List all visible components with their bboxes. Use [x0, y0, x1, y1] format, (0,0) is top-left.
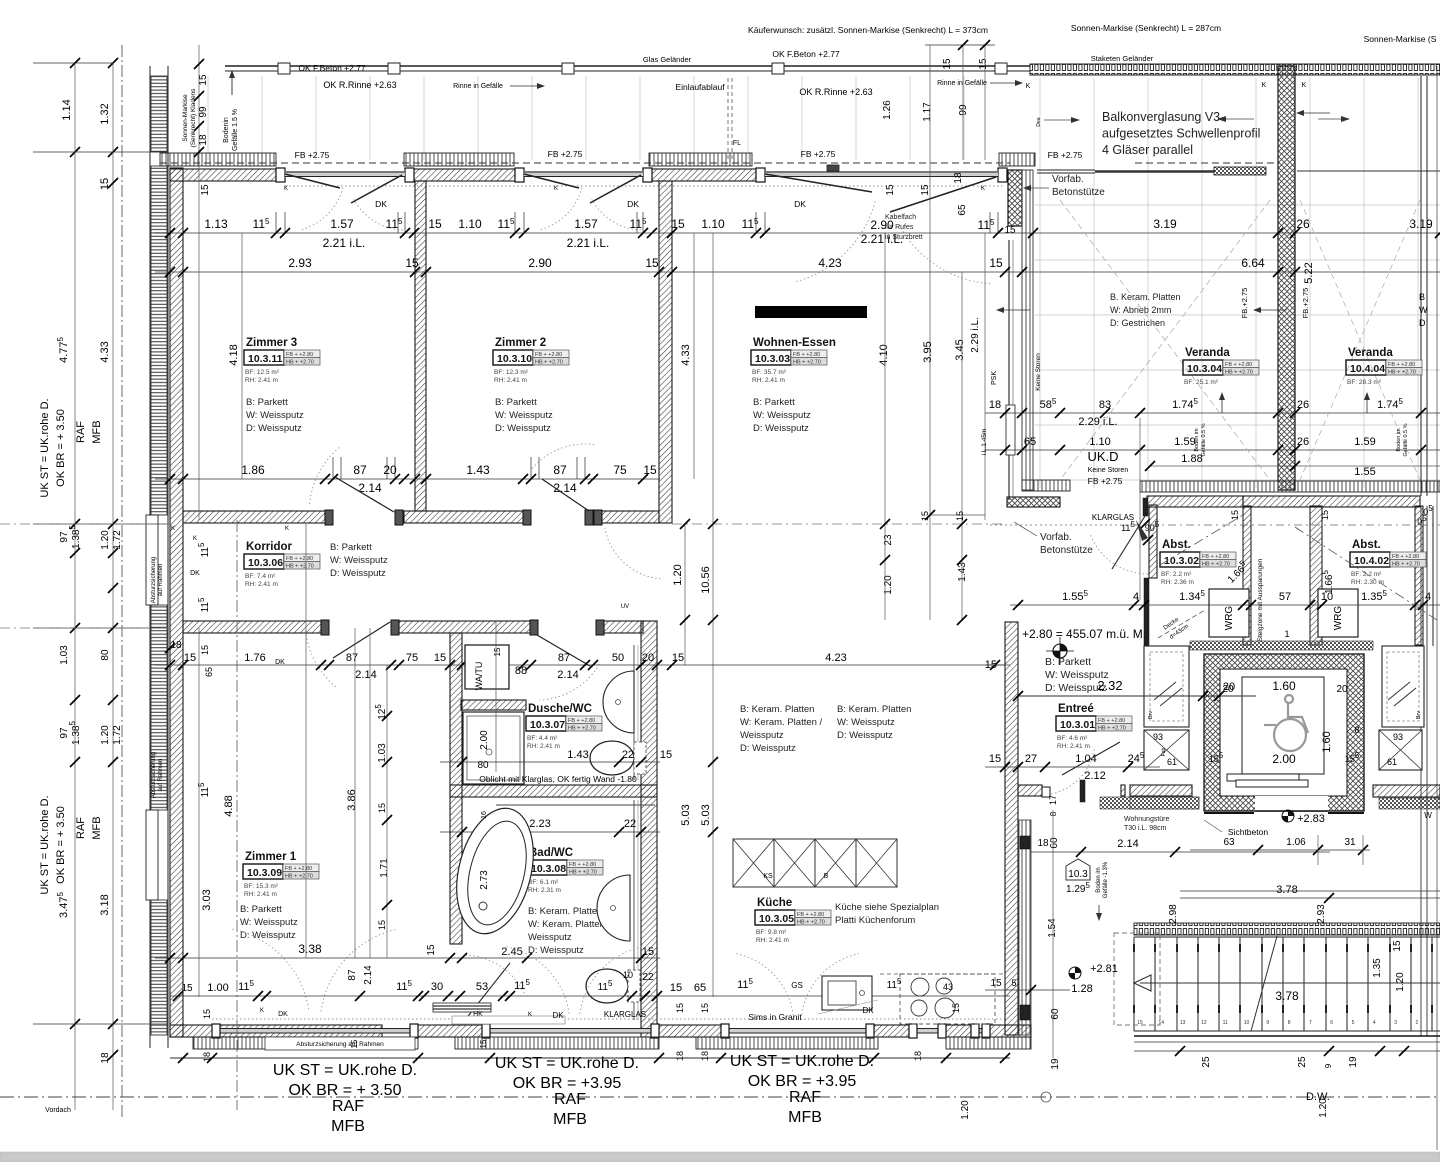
window jamb — [643, 168, 652, 182]
wall: left exterior — [170, 168, 183, 1037]
left dash-dot vertical — [121, 45, 123, 1120]
svg-text:KLARGLAS: KLARGLAS — [604, 1010, 646, 1019]
wall: entree south piece — [1018, 785, 1042, 796]
svg-text:30: 30 — [431, 981, 443, 993]
svg-text:10: 10 — [623, 970, 633, 980]
svg-text:65: 65 — [694, 982, 706, 994]
svg-text:FB + +2.80: FB + +2.80 — [1202, 554, 1229, 560]
svg-text:15: 15 — [181, 983, 193, 994]
svg-text:UV: UV — [621, 604, 629, 610]
svg-text:1.28: 1.28 — [1071, 983, 1092, 995]
svg-text:3.86: 3.86 — [346, 789, 358, 810]
balcony floor strip — [160, 153, 276, 166]
svg-text:20: 20 — [383, 463, 397, 477]
svg-text:1.60: 1.60 — [1321, 731, 1333, 752]
svg-text:2.21 i.L.: 2.21 i.L. — [567, 236, 610, 250]
door gap in shaft wall — [1255, 796, 1328, 811]
svg-text:18: 18 — [1037, 838, 1049, 849]
wall: south exterior segment — [418, 1025, 490, 1037]
redacted black bar — [755, 306, 867, 318]
svg-text:10.4.04: 10.4.04 — [1350, 363, 1385, 375]
svg-text:15: 15 — [942, 58, 953, 70]
svg-text:Absturzsicherung: Absturzsicherung — [151, 557, 157, 603]
svg-text:B: Parkett: B: Parkett — [330, 542, 372, 553]
left parapet wall — [149, 66, 151, 1048]
veranda floor strip south — [1140, 481, 1440, 492]
svg-text:D: D — [1419, 318, 1426, 328]
balcony floor strip — [404, 153, 514, 166]
elevator inner — [1220, 669, 1347, 796]
svg-text:in Sturzbrett: in Sturzbrett — [885, 234, 923, 241]
svg-text:18: 18 — [953, 172, 964, 184]
dimension row A right — [1010, 232, 1440, 234]
stair walk line + arrow — [1140, 982, 1440, 984]
10.3 pentagon — [1066, 859, 1090, 880]
svg-text:HB + +2.70: HB + +2.70 — [1225, 370, 1253, 376]
svg-text:RH: 2.31 m: RH: 2.31 m — [528, 887, 561, 894]
window petal arcs south Zimmer1 — [232, 929, 309, 1011]
HK radiator — [433, 1003, 491, 1012]
svg-text:4: 4 — [1425, 591, 1431, 603]
wall: corridor north seg2 — [404, 511, 523, 523]
svg-text:Sonnen-Markise (Senkrecht) L =: Sonnen-Markise (Senkrecht) L = 287cm — [1071, 23, 1221, 33]
svg-text:auf Rahmen: auf Rahmen — [158, 759, 164, 792]
jamb extension stubs row A — [275, 212, 277, 233]
svg-text:20: 20 — [1223, 681, 1235, 693]
svg-text:W: Abrieb 2mm: W: Abrieb 2mm — [1110, 305, 1171, 315]
door swing Dusche — [537, 635, 590, 666]
svg-text:D: Gestrichen: D: Gestrichen — [1110, 318, 1165, 328]
fixture: bathtub (egg shape) — [445, 800, 546, 942]
elevator cab — [1242, 677, 1324, 774]
svg-text:3.38: 3.38 — [298, 942, 322, 956]
left margin dimension chains — [33, 62, 113, 64]
svg-text:Rinne in Gefälle: Rinne in Gefälle — [453, 83, 503, 90]
svg-text:1.57: 1.57 — [330, 217, 354, 231]
svg-text:15: 15 — [920, 184, 931, 196]
svg-text:BF: 15.3 m²: BF: 15.3 m² — [244, 883, 279, 890]
svg-text:15: 15 — [951, 1003, 961, 1013]
railing post — [995, 63, 1007, 74]
svg-text:RAF: RAF — [789, 1089, 821, 1106]
wall: top exterior seg3 (Wohnen pier) — [652, 169, 756, 181]
dimension row right D y=450 — [985, 449, 1440, 451]
svg-text:MFB: MFB — [553, 1111, 587, 1128]
door jamb corridor south — [321, 620, 329, 635]
svg-text:BF: 2.2 m²: BF: 2.2 m² — [1351, 571, 1382, 578]
svg-text:Zimmer 3: Zimmer 3 — [246, 337, 297, 349]
decke leader dashed — [1158, 610, 1205, 638]
south jamb — [212, 1024, 220, 1038]
svg-text:Gefälle 0.5 %: Gefälle 0.5 % — [1403, 423, 1409, 456]
wall: corridor north seg3 — [601, 511, 659, 523]
dimension row G y=665 — [155, 664, 1010, 666]
svg-text:15: 15 — [1004, 225, 1016, 236]
svg-text:B: Parkett: B: Parkett — [1045, 656, 1091, 668]
svg-text:1.20: 1.20 — [1318, 1098, 1329, 1118]
svg-text:15: 15 — [990, 978, 1002, 989]
svg-text:7: 7 — [1309, 1020, 1312, 1026]
door swing corridor east — [605, 528, 661, 579]
svg-text:WRG: WRG — [1333, 606, 1344, 631]
svg-text:15: 15 — [377, 920, 387, 930]
svg-text:+2.81: +2.81 — [1090, 963, 1118, 975]
svg-text:2.21 i.L.: 2.21 i.L. — [323, 236, 366, 250]
svg-text:10: 10 — [1321, 591, 1333, 603]
south jamb — [971, 1024, 979, 1038]
svg-text:FB.+2.75: FB.+2.75 — [1240, 288, 1249, 319]
svg-text:K: K — [528, 1012, 532, 1018]
svg-text:1: 1 — [1284, 629, 1289, 639]
svg-text:FB +2.75: FB +2.75 — [548, 149, 583, 159]
window DK symbol Zimmer 2 — [524, 174, 579, 188]
svg-text:8: 8 — [1049, 811, 1058, 816]
south jamb — [938, 1024, 946, 1038]
svg-text:Zimmer 1: Zimmer 1 — [245, 851, 297, 863]
svg-text:2.93: 2.93 — [1316, 904, 1327, 924]
svg-text:W: Weissputz: W: Weissputz — [246, 410, 304, 421]
jamb entree door — [1042, 787, 1050, 797]
svg-text:W: Weissputz: W: Weissputz — [240, 917, 298, 928]
svg-text:1.71: 1.71 — [379, 858, 390, 878]
svg-text:D: Weissputz: D: Weissputz — [330, 568, 386, 579]
svg-text:B: Parkett: B: Parkett — [240, 904, 282, 915]
row H right (27|1.04|24/2.12) y=762 — [985, 766, 1160, 768]
svg-text:87: 87 — [346, 652, 358, 664]
svg-text:97: 97 — [59, 727, 70, 739]
svg-text:63: 63 — [1223, 837, 1235, 848]
bottom dimension line under south wall — [170, 1057, 1010, 1059]
svg-text:1.55: 1.55 — [1354, 466, 1375, 478]
vordach dash-dot vertical — [236, 520, 238, 1110]
svg-text:2.29 i.L.: 2.29 i.L. — [970, 317, 981, 353]
window jamb — [756, 168, 765, 182]
svg-text:15: 15 — [700, 1003, 710, 1013]
svg-text:4.23: 4.23 — [818, 256, 842, 270]
svg-text:15: 15 — [1392, 940, 1403, 952]
svg-text:1.20: 1.20 — [672, 564, 684, 585]
KLARGLAS door (veranda->Entree) — [1143, 498, 1148, 516]
svg-text:65: 65 — [957, 204, 968, 216]
wall: south exterior segment — [874, 1025, 909, 1037]
svg-text:25: 25 — [1201, 1056, 1212, 1068]
svg-text:Käuferwunsch: zusätzl. Sonnen-: Käuferwunsch: zusätzl. Sonnen-Markise (S… — [748, 25, 988, 35]
svg-text:1.32: 1.32 — [99, 103, 111, 124]
DW + dashdot bottom — [0, 1096, 1440, 1098]
svg-text:K: K — [285, 526, 289, 532]
svg-text:HB + +2.70: HB + +2.70 — [535, 360, 563, 366]
elevator shaft walls crosshatch — [1204, 654, 1364, 811]
svg-text:UK.D: UK.D — [1087, 449, 1118, 464]
svg-text:1.00: 1.00 — [207, 982, 228, 994]
svg-text:15: 15 — [955, 511, 965, 521]
svg-text:RH: 2.41 m: RH: 2.41 m — [494, 377, 527, 384]
svg-text:1.17: 1.17 — [922, 102, 933, 122]
svg-text:61: 61 — [1167, 757, 1177, 767]
veranda floor strip sw — [1022, 480, 1070, 491]
wohnungstür leaf — [1080, 780, 1085, 802]
svg-text:2.98: 2.98 — [1168, 904, 1179, 924]
svg-text:10: 10 — [1244, 1020, 1250, 1026]
wall: Zimmer 1 | baths — [450, 633, 462, 944]
svg-text:Gefälle 0.5 %: Gefälle 0.5 % — [1201, 423, 1207, 456]
svg-text:DK: DK — [794, 199, 806, 209]
svg-text:K: K — [554, 186, 558, 192]
svg-text:Vordach: Vordach — [45, 1107, 71, 1114]
svg-text:RH: 2.41 m: RH: 2.41 m — [756, 937, 789, 944]
svg-text:FB + +2.80: FB + +2.80 — [568, 718, 595, 724]
svg-text:1.72: 1.72 — [112, 530, 123, 550]
svg-text:Entreé: Entreé — [1058, 703, 1094, 715]
svg-text:+2.80 = 455.07 m.ü. M.: +2.80 = 455.07 m.ü. M. — [1022, 627, 1146, 641]
svg-text:FB + +2.80: FB + +2.80 — [797, 912, 824, 918]
svg-text:BF: 6.1 m²: BF: 6.1 m² — [528, 879, 559, 886]
svg-text:D: Weissputz: D: Weissputz — [740, 743, 796, 754]
svg-text:4.18: 4.18 — [228, 344, 240, 365]
svg-text:Weissputz: Weissputz — [528, 932, 572, 943]
svg-text:3.78: 3.78 — [1276, 884, 1297, 896]
svg-text:FB + +2.80: FB + +2.80 — [1225, 362, 1252, 368]
svg-text:BF: 28.3 m²: BF: 28.3 m² — [1347, 379, 1382, 386]
svg-text:19: 19 — [1050, 1058, 1061, 1070]
svg-text:KS: KS — [763, 873, 773, 880]
corridor centerline dashes — [0, 523, 170, 525]
svg-text:OK BR = + 3.50: OK BR = + 3.50 — [289, 1082, 402, 1099]
svg-text:WA/TU: WA/TU — [474, 662, 484, 691]
svg-text:1.20: 1.20 — [100, 530, 111, 550]
svg-text:BF: 12.5 m²: BF: 12.5 m² — [245, 369, 280, 376]
svg-text:60: 60 — [1049, 837, 1060, 849]
south jamb — [651, 1024, 659, 1038]
balcony glass railing top — [225, 65, 1030, 67]
svg-text:Sonnen-Markise: Sonnen-Markise — [182, 94, 189, 142]
small window stop Wohnen — [827, 165, 839, 171]
door jamb corridor south — [596, 620, 604, 635]
svg-text:93: 93 — [1393, 732, 1403, 742]
tile strip lobby west — [1130, 797, 1199, 809]
jamb stubs row E — [332, 457, 334, 479]
small chain near x=199 — [198, 45, 200, 520]
svg-text:6.64: 6.64 — [1241, 256, 1265, 270]
svg-text:5.03: 5.03 — [680, 804, 692, 825]
svg-text:D: Weissputz: D: Weissputz — [753, 423, 809, 434]
svg-text:19: 19 — [1348, 1056, 1359, 1068]
svg-text:Vorfab.: Vorfab. — [1040, 532, 1072, 543]
svg-text:4.33: 4.33 — [680, 344, 692, 365]
svg-text:1.88: 1.88 — [1181, 453, 1202, 465]
svg-text:1.04: 1.04 — [1075, 753, 1096, 765]
parapet box 2 — [146, 810, 158, 900]
door black Küche service — [1020, 836, 1030, 849]
svg-text:2.73: 2.73 — [479, 870, 490, 890]
betonstütze column top — [1008, 170, 1022, 226]
wall — [461, 700, 526, 710]
svg-text:FB +2.75: FB +2.75 — [1088, 476, 1123, 486]
window jamb — [998, 168, 1007, 182]
svg-text:Gefälle 1.5 %: Gefälle 1.5 % — [232, 109, 239, 151]
svg-text:6: 6 — [1330, 1020, 1333, 1026]
svg-text:FB + +2.80: FB + +2.80 — [1388, 362, 1415, 368]
window glazing top (3 windows) — [285, 171, 405, 177]
svg-text:10.3.05: 10.3.05 — [759, 913, 794, 925]
svg-text:3.18: 3.18 — [99, 894, 111, 915]
door jamb corridor north — [395, 510, 403, 525]
svg-text:15: 15 — [978, 58, 989, 70]
svg-text:KLARGLAS: KLARGLAS — [1092, 513, 1134, 522]
svg-text:15: 15 — [350, 1039, 359, 1048]
svg-text:4 Gläser parallel: 4 Gläser parallel — [1102, 143, 1193, 157]
svg-text:15: 15 — [989, 753, 1001, 765]
svg-text:Abst.: Abst. — [1162, 539, 1191, 551]
svg-text:OK BR = +3.95: OK BR = +3.95 — [513, 1075, 622, 1092]
svg-text:OK F.Beton +2.77: OK F.Beton +2.77 — [772, 49, 840, 59]
svg-text:Brv: Brv — [1416, 711, 1422, 720]
svg-text:FB + +2.80: FB + +2.80 — [569, 862, 596, 868]
svg-text:i.L.1.45m: i.L.1.45m — [981, 429, 988, 456]
svg-text:W: Keram. Platten /: W: Keram. Platten / — [740, 717, 823, 728]
svg-text:Balkonverglasung V3: Balkonverglasung V3 — [1102, 110, 1220, 124]
svg-text:W: W — [1419, 305, 1428, 315]
svg-text:15: 15 — [675, 1003, 685, 1013]
svg-text:Fab: Fab — [1161, 747, 1167, 756]
svg-text:Platti Küchenforum: Platti Küchenforum — [835, 915, 915, 926]
hatch wedges at door — [1136, 520, 1148, 541]
svg-text:FB + +2.80: FB + +2.80 — [535, 352, 562, 358]
svg-text:20: 20 — [1336, 684, 1348, 695]
svg-text:BF: 7.4 m²: BF: 7.4 m² — [245, 573, 276, 580]
door jamb corridor north — [585, 510, 593, 525]
svg-text:1.20: 1.20 — [960, 1100, 971, 1120]
svg-text:15: 15 — [200, 184, 211, 196]
svg-text:UK ST = UK.rohe D.: UK ST = UK.rohe D. — [495, 1055, 639, 1072]
svg-text:1.59: 1.59 — [1354, 436, 1375, 448]
svg-text:1.10: 1.10 — [458, 217, 482, 231]
door swing Zimmer 2 — [542, 479, 589, 511]
svg-text:15: 15 — [405, 256, 419, 270]
svg-text:FB + +2.80: FB + +2.80 — [1098, 718, 1125, 724]
fixture: toilet Dusche — [590, 741, 634, 775]
svg-text:DK: DK — [862, 1006, 874, 1015]
+2.81 marker — [1069, 967, 1081, 979]
svg-text:20: 20 — [642, 652, 654, 664]
svg-text:BF: 35.7 m²: BF: 35.7 m² — [752, 369, 787, 376]
svg-text:15: 15 — [99, 178, 111, 190]
svg-text:PSK: PSK — [991, 371, 998, 385]
dimension row A (2.21 i.L. row) y=233 — [155, 232, 1010, 234]
svg-text:HB + +2.70: HB + +2.70 — [286, 360, 314, 366]
right edge wall lines — [1420, 76, 1422, 496]
svg-text:Betonstütze: Betonstütze — [1040, 545, 1093, 556]
svg-text:+2.83: +2.83 — [1297, 813, 1325, 825]
understair dashed zone — [1114, 933, 1160, 1025]
svg-text:Keine Storen: Keine Storen — [1088, 467, 1129, 474]
bottom right dims — [1134, 1050, 1440, 1052]
svg-text:HB + +2.70: HB + +2.70 — [568, 726, 596, 732]
svg-text:Küche siehe Spezialplan: Küche siehe Spezialplan — [835, 902, 939, 913]
svg-text:3.78: 3.78 — [1275, 989, 1299, 1003]
door black south — [1020, 1005, 1030, 1020]
svg-text:K: K — [1026, 83, 1031, 90]
svg-text:65: 65 — [204, 667, 214, 677]
svg-text:(Senkrecht) Kladens: (Senkrecht) Kladens — [190, 88, 197, 148]
svg-text:W: Keram. Platten /: W: Keram. Platten / — [528, 919, 611, 930]
closet left of elevator — [1144, 646, 1189, 727]
door swing Zimmer 1 — [333, 622, 390, 658]
svg-text:FB + +2.80: FB + +2.80 — [286, 556, 313, 562]
svg-text:OK F.Beton +2.77: OK F.Beton +2.77 — [298, 63, 366, 73]
svg-text:15: 15 — [377, 803, 387, 813]
svg-text:FB + +2.80: FB + +2.80 — [793, 352, 820, 358]
drain dashed leader — [727, 78, 729, 160]
svg-text:D: Weissputz: D: Weissputz — [495, 423, 551, 434]
svg-text:10.3.07: 10.3.07 — [530, 719, 565, 731]
svg-text:8: 8 — [1288, 1020, 1291, 1026]
svg-text:9: 9 — [1266, 1020, 1269, 1026]
PSK sliding door line — [1008, 240, 1010, 500]
svg-text:4.10: 4.10 — [878, 344, 890, 365]
svg-text:75: 75 — [613, 463, 627, 477]
svg-text:K: K — [284, 186, 288, 192]
WRG box right — [1318, 589, 1358, 637]
fixture: toilet Bad — [586, 969, 628, 1003]
svg-text:1.13: 1.13 — [204, 217, 228, 231]
svg-text:2.12: 2.12 — [1084, 770, 1105, 782]
staketen geländer strip — [1030, 64, 1440, 75]
svg-text:1.14: 1.14 — [61, 99, 73, 120]
wall: veranda divider crosshatch — [1278, 66, 1295, 490]
wheelchair symbol — [1264, 695, 1308, 751]
wall: Dusche | Bad — [450, 785, 657, 797]
svg-text:K: K — [193, 536, 197, 542]
svg-text:27: 27 — [1025, 753, 1037, 765]
stair handrail band — [1134, 923, 1440, 935]
svg-text:1.54: 1.54 — [1047, 918, 1058, 938]
svg-text:22: 22 — [642, 972, 654, 983]
stair treads — [1134, 937, 1432, 1031]
tile floor strip above elevator — [1190, 641, 1373, 650]
WA/TU washer box — [465, 645, 509, 689]
svg-text:15: 15 — [493, 647, 502, 656]
svg-text:HB + +2.70: HB + +2.70 — [286, 564, 314, 570]
svg-text:1.57: 1.57 — [574, 217, 598, 231]
south balcony floor strip — [193, 1037, 418, 1049]
svg-text:Absturzsicherung: Absturzsicherung — [151, 752, 157, 798]
svg-text:für Rufes: für Rufes — [885, 224, 914, 231]
svg-text:83: 83 — [1099, 399, 1111, 411]
svg-text:Kabelfach: Kabelfach — [885, 214, 916, 221]
wall: bath | kitchen (east bath wall) — [641, 621, 657, 1037]
svg-text:BF: 12.3 m²: BF: 12.3 m² — [494, 369, 529, 376]
svg-text:2.32: 2.32 — [1097, 678, 1122, 693]
svg-text:DK: DK — [190, 570, 200, 577]
kitchen counter bottom — [900, 974, 995, 1024]
svg-text:1.20: 1.20 — [100, 725, 111, 745]
wall: lobby east — [1373, 785, 1440, 797]
svg-text:Keine Storen: Keine Storen — [1035, 353, 1042, 391]
long vertical dim lines x=685,713 — [684, 524, 686, 665]
wall: south exterior segment — [170, 1025, 382, 1037]
svg-text:15: 15 — [426, 944, 437, 956]
svg-text:1.86: 1.86 — [241, 463, 265, 477]
svg-text:11: 11 — [1223, 1020, 1228, 1026]
svg-text:18: 18 — [100, 1052, 111, 1064]
wall: right Abst east — [1415, 506, 1423, 645]
svg-text:Küche: Küche — [757, 897, 792, 909]
wall: Zimmer 2 | Wohnen-Essen — [659, 181, 672, 523]
svg-text:3.19: 3.19 — [1409, 217, 1433, 231]
svg-text:MFB: MFB — [91, 816, 103, 839]
svg-text:FB + +2.80: FB + +2.80 — [286, 352, 313, 358]
